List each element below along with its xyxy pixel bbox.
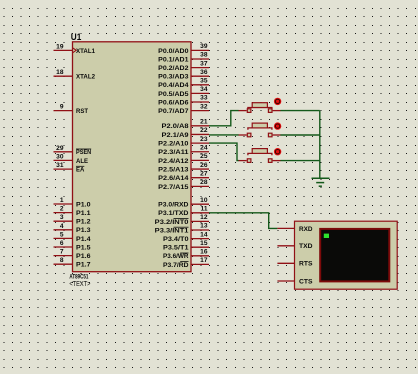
svg-text:XTAL2: XTAL2	[76, 74, 95, 81]
svg-text:P1.1: P1.1	[76, 210, 91, 217]
svg-text:P0.3/AD3: P0.3/AD3	[158, 74, 189, 81]
svg-text:P0.2/AD2: P0.2/AD2	[158, 65, 189, 72]
svg-text:P3.7/RD: P3.7/RD	[163, 262, 189, 269]
svg-text:32: 32	[200, 103, 208, 110]
pin 38 (P0.1/AD1) right pin	[158, 52, 209, 64]
svg-text:35: 35	[200, 78, 208, 85]
pin 32 (P0.7/AD7) right pin	[158, 103, 209, 115]
svg-text:<TEXT>: <TEXT>	[69, 281, 90, 288]
svg-text:36: 36	[200, 69, 208, 76]
svg-text:28: 28	[200, 179, 208, 186]
svg-text:26: 26	[200, 162, 208, 169]
IC U1 AT89C51 body	[73, 42, 192, 272]
svg-text:PSEN: PSEN	[76, 149, 91, 156]
wire P2.0 pin21 to SW1	[209, 111, 239, 126]
wire P2.2 pin23 to SW3	[209, 143, 239, 161]
wire SW2 to ground bus	[280, 134, 319, 136]
pin 30 (ALE) left pin	[54, 153, 89, 164]
pin 39 (P0.0/AD0) right pin	[158, 43, 209, 55]
pin 5 (P1.4) left pin	[54, 231, 91, 242]
svg-text:16: 16	[200, 249, 208, 256]
svg-text:P2.7/A15: P2.7/A15	[158, 184, 189, 191]
terminal pin TXD	[277, 243, 312, 250]
pin 4 (P1.3) left pin	[54, 223, 91, 234]
pin 9 (RST) left pin	[54, 104, 89, 115]
pin 13 (P3.3/INT1) right pin	[155, 223, 209, 235]
svg-text:RST: RST	[76, 108, 88, 115]
pin 15 (P3.5/T1) right pin	[163, 240, 209, 252]
svg-text:P2.6/A14: P2.6/A14	[158, 175, 189, 182]
svg-text:15: 15	[200, 240, 208, 247]
svg-text:EA: EA	[76, 167, 85, 174]
pin 24 (P2.3/A11) right pin	[158, 144, 209, 156]
svg-text:22: 22	[200, 127, 208, 134]
svg-text:31: 31	[56, 162, 64, 169]
svg-text:23: 23	[200, 136, 208, 143]
terminal pin CTS	[277, 278, 313, 285]
svg-text:29: 29	[56, 145, 64, 152]
svg-text:37: 37	[200, 60, 208, 67]
pin 7 (P1.6) left pin	[54, 249, 91, 260]
svg-text:P0.0/AD0: P0.0/AD0	[158, 48, 189, 55]
pin 27 (P2.6/A14) right pin	[158, 170, 209, 182]
wire P3.1 TXD to terminal RXD	[209, 213, 277, 229]
svg-text:P2.5/A13: P2.5/A13	[158, 166, 189, 173]
svg-text:17: 17	[200, 257, 208, 264]
svg-text:34: 34	[200, 86, 208, 93]
svg-text:P2.2/A10: P2.2/A10	[158, 141, 189, 148]
svg-text:P1.3: P1.3	[76, 227, 91, 234]
svg-text:P3.0/RXD: P3.0/RXD	[158, 202, 189, 209]
svg-text:P3.6/WR: P3.6/WR	[163, 253, 189, 260]
svg-text:AT89C51: AT89C51	[69, 274, 88, 281]
ground symbol	[312, 178, 330, 186]
svg-text:P0.1/AD1: P0.1/AD1	[158, 56, 189, 63]
pin 26 (P2.5/A13) right pin	[158, 162, 209, 174]
svg-text:11: 11	[201, 206, 208, 213]
svg-text:P3.2/INT0: P3.2/INT0	[155, 219, 189, 226]
svg-text:39: 39	[200, 43, 208, 50]
pin 28 (P2.7/A15) right pin	[158, 179, 209, 191]
pin 19 (XTAL1) left pin	[54, 43, 96, 54]
terminal pin RTS	[277, 261, 313, 268]
svg-text:TXD: TXD	[299, 243, 313, 250]
svg-text:P2.0/A8: P2.0/A8	[162, 123, 189, 130]
pin 10 (P3.0/RXD) right pin	[158, 197, 209, 209]
svg-text:RTS: RTS	[299, 261, 313, 268]
svg-text:33: 33	[200, 95, 208, 102]
pin 17 (P3.7/RD) right pin	[163, 257, 209, 269]
wire ground bus vertical	[319, 111, 321, 179]
pin 21 (P2.0/A8) right pin	[162, 119, 210, 131]
svg-text:P3.1/TXD: P3.1/TXD	[158, 210, 189, 217]
terminal cursor	[324, 234, 329, 238]
pin 14 (P3.4/T0) right pin	[163, 231, 209, 243]
pin 6 (P1.5) left pin	[54, 240, 91, 251]
svg-text:3: 3	[60, 214, 64, 221]
svg-text:P0.6/AD6: P0.6/AD6	[158, 99, 189, 106]
svg-text:P3.3/INT1: P3.3/INT1	[155, 227, 189, 234]
svg-text:7: 7	[60, 249, 64, 256]
pin 2 (P1.1) left pin	[54, 206, 91, 217]
svg-text:19: 19	[56, 43, 64, 50]
svg-text:25: 25	[200, 153, 208, 160]
svg-text:6: 6	[60, 240, 64, 247]
pin 36 (P0.3/AD3) right pin	[158, 69, 209, 81]
svg-text:5: 5	[60, 231, 64, 238]
push button SW3	[238, 148, 281, 162]
pin 31 (EA) left pin	[54, 162, 85, 173]
svg-text:27: 27	[200, 170, 208, 177]
svg-text:P2.1/A9: P2.1/A9	[162, 132, 189, 139]
svg-text:10: 10	[200, 197, 208, 204]
svg-text:P0.5/AD5: P0.5/AD5	[158, 91, 189, 98]
pin 34 (P0.5/AD5) right pin	[158, 86, 209, 98]
svg-text:P3.4/T0: P3.4/T0	[163, 236, 189, 243]
svg-text:8: 8	[60, 257, 64, 264]
pin 25 (P2.4/A12) right pin	[158, 153, 209, 165]
svg-text:1: 1	[60, 197, 64, 204]
pin 12 (P3.2/INT0) right pin	[155, 214, 209, 226]
svg-text:P1.2: P1.2	[76, 219, 91, 226]
svg-text:30: 30	[56, 153, 64, 160]
wire SW3 to ground bus	[280, 160, 319, 162]
wire SW1 to ground bus	[280, 110, 319, 112]
svg-text:RXD: RXD	[299, 226, 313, 233]
pin 18 (XTAL2) left pin	[54, 69, 96, 80]
terminal pin RXD	[277, 226, 312, 233]
svg-text:21: 21	[200, 119, 208, 126]
push button SW1	[238, 98, 281, 113]
pin 35 (P0.4/AD4) right pin	[158, 78, 209, 90]
pin 11 (P3.1/TXD) right pin	[158, 206, 209, 218]
svg-text:P1.0: P1.0	[76, 201, 91, 208]
pin 23 (P2.2/A10) right pin	[158, 136, 209, 148]
svg-text:24: 24	[200, 144, 208, 151]
pin 3 (P1.2) left pin	[54, 214, 91, 225]
svg-text:P0.7/AD7: P0.7/AD7	[158, 108, 189, 115]
svg-text:P1.7: P1.7	[76, 262, 91, 269]
virtual terminal instrument body	[295, 221, 398, 289]
svg-text:38: 38	[200, 52, 208, 59]
svg-text:P0.4/AD4: P0.4/AD4	[158, 82, 189, 89]
pin 16 (P3.6/WR) right pin	[163, 249, 209, 261]
svg-text:ALE: ALE	[76, 158, 89, 165]
push button SW2	[238, 122, 281, 136]
pin 22 (P2.1/A9) right pin	[162, 127, 210, 139]
svg-text:13: 13	[200, 223, 208, 230]
pin 29 (PSEN) left pin	[54, 145, 92, 156]
svg-text:12: 12	[200, 214, 208, 221]
svg-text:18: 18	[56, 69, 64, 76]
pin 33 (P0.6/AD6) right pin	[158, 95, 209, 107]
pin 37 (P0.2/AD2) right pin	[158, 60, 209, 72]
svg-text:CTS: CTS	[299, 278, 313, 285]
pin 8 (P1.7) left pin	[54, 257, 91, 268]
svg-text:P3.5/T1: P3.5/T1	[163, 245, 189, 252]
svg-text:P2.4/A12: P2.4/A12	[158, 158, 189, 165]
svg-text:4: 4	[60, 223, 64, 230]
svg-text:XTAL1: XTAL1	[76, 48, 95, 55]
svg-text:P1.6: P1.6	[76, 253, 91, 260]
terminal screen	[320, 229, 389, 282]
svg-text:U1: U1	[71, 32, 82, 43]
svg-text:P1.5: P1.5	[76, 244, 91, 251]
svg-text:P1.4: P1.4	[76, 236, 91, 243]
svg-text:2: 2	[60, 206, 64, 213]
svg-text:P2.3/A11: P2.3/A11	[158, 149, 189, 156]
wire P2.1 pin22 to SW2	[209, 134, 239, 136]
pin 1 (P1.0) left pin	[54, 197, 91, 208]
svg-text:9: 9	[60, 104, 64, 111]
svg-text:14: 14	[200, 231, 208, 238]
